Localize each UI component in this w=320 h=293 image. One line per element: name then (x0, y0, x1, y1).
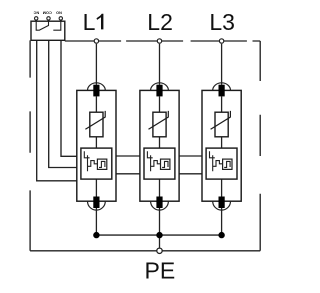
svg-text:COM: COM (43, 10, 52, 15)
svg-text:L2: L2 (147, 9, 173, 35)
svg-text:L: L (83, 9, 96, 35)
svg-text:L3: L3 (209, 9, 235, 35)
svg-text:PE: PE (145, 258, 176, 284)
svg-text:NO: NO (56, 10, 62, 15)
svg-text:NC: NC (33, 10, 39, 15)
